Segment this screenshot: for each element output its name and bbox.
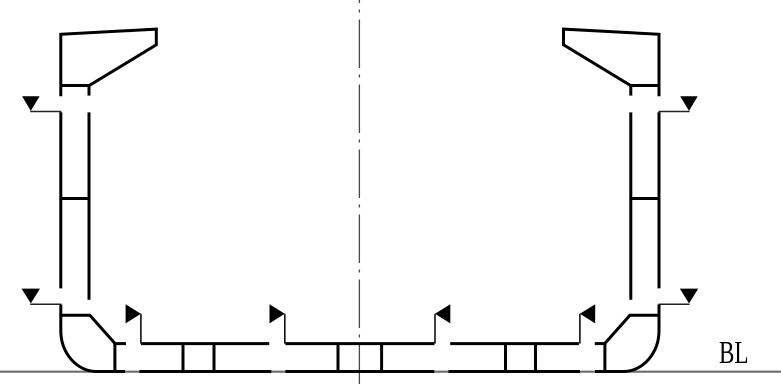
floor F6 — [534, 344, 537, 372]
left topside tank outline — [59, 29, 156, 96]
floor F3 (port of CL) — [337, 344, 340, 372]
right topside tank outline — [564, 29, 661, 96]
left side stringer rung — [59, 197, 90, 200]
right bilge shell with radius and bottom shell segment — [595, 305, 659, 372]
upper-right block seam triangle — [680, 96, 698, 111]
right inner side shell — [629, 112, 632, 299]
lower-right block seam triangle — [680, 289, 699, 304]
floor F1 — [182, 344, 185, 372]
floor F4 (stbd of CL) — [380, 344, 383, 372]
upper-left seam leader line — [30, 111, 61, 113]
lower-left block seam triangle — [22, 289, 41, 304]
left margin floor — [113, 344, 116, 372]
bottom seam flag 4 pennant — [580, 304, 595, 323]
bottom seam flag 2 pennant — [270, 304, 285, 323]
floor F5 — [504, 344, 507, 372]
upper-left block seam triangle — [22, 96, 39, 111]
lower-left seam leader line — [30, 303, 61, 305]
bottom shell plating segment 3 (center) — [285, 370, 434, 373]
bottom seam flag 4 staff — [579, 314, 581, 344]
left outer side shell — [59, 112, 62, 288]
right inner shell stub under topside tank — [629, 84, 632, 96]
lower-right seam leader line — [659, 303, 690, 305]
right side stringer rung — [629, 197, 660, 200]
right outer side shell — [658, 112, 661, 288]
right hopper sloped plate — [605, 315, 631, 344]
bottom seam flag 3 pennant — [435, 304, 450, 323]
inner bottom plating segment 2 — [141, 342, 269, 345]
floor F2 — [213, 344, 216, 372]
bottom shell plating segment 4 — [449, 370, 581, 373]
bottom seam flag 1 pennant — [126, 304, 141, 323]
left hopper sloped plate — [89, 315, 115, 344]
inner bottom plating segment 3 (center) — [285, 342, 434, 345]
left inner side shell — [88, 112, 91, 299]
bottom seam flag 3 staff — [434, 314, 436, 344]
centerline CL (dash-dot) — [358, 0, 360, 384]
left hopper stringer — [59, 314, 90, 317]
inner bottom plating segment 4 — [450, 342, 579, 345]
svg-text:BL: BL — [719, 334, 749, 370]
left inner shell stub under topside tank — [88, 84, 91, 96]
left bilge shell with radius and bottom shell segment — [61, 305, 125, 372]
bottom seam flag 2 staff — [284, 314, 286, 344]
inner bottom plating segment 5 (right stub) — [595, 342, 607, 345]
baseline BL (thin gray, full width) — [0, 371, 781, 373]
bottom seam flag 1 staff — [140, 314, 142, 344]
upper-right seam leader line — [659, 111, 690, 113]
inner bottom plating segment 1 (left stub) — [113, 342, 126, 345]
bottom shell plating segment 2 — [139, 370, 271, 373]
right hopper stringer — [630, 314, 661, 317]
right margin floor — [603, 344, 606, 372]
